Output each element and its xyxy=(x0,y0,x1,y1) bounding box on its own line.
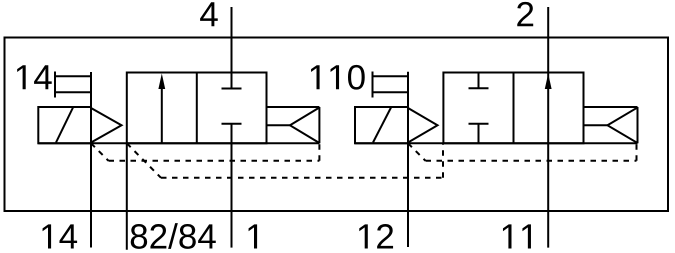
valve body V1 xyxy=(127,73,267,144)
port label 4 xyxy=(200,2,218,26)
port label 14 bottom xyxy=(43,224,78,248)
solenoid coil V1 xyxy=(38,107,91,143)
chamber divider V2 xyxy=(513,73,515,144)
port label 12 xyxy=(359,224,393,248)
port label 82/84 xyxy=(131,223,216,249)
flow arrow V2 xyxy=(545,74,552,90)
pilot port 14 symbol xyxy=(54,72,56,98)
closed port T top V2 xyxy=(478,73,480,89)
pilot actuator triangle V1 xyxy=(91,108,122,143)
closed port T bottom V2 xyxy=(469,123,489,125)
pilot actuator triangle V2 xyxy=(408,108,438,143)
air spring return V2 xyxy=(584,106,638,108)
pilot line 12 vertical xyxy=(407,72,409,247)
pilot port label 14 xyxy=(17,65,52,89)
baseline V1 xyxy=(38,142,319,144)
port label 1 xyxy=(249,224,258,248)
pilot line 14 vertical xyxy=(90,72,92,248)
closed port T top V1 xyxy=(222,88,242,90)
pilot feedback dashed V2 xyxy=(408,143,637,161)
port label 11 xyxy=(503,224,531,248)
port label 2 xyxy=(517,2,533,26)
port line 82/84 xyxy=(126,143,128,250)
solenoid coil V2 xyxy=(355,107,408,143)
port line 1 xyxy=(231,124,233,248)
chamber divider V1 xyxy=(196,73,198,144)
port line 2/11 xyxy=(547,7,549,248)
pilot port label 110 xyxy=(311,65,365,90)
closed port T bottom V1 xyxy=(222,123,242,125)
pilot port 110 symbol xyxy=(372,72,374,98)
flow arrow V1 xyxy=(161,89,163,143)
air spring return V1 xyxy=(267,106,320,108)
pilot feedback dashed V1 xyxy=(91,143,319,161)
enclosure border xyxy=(5,38,669,212)
valve body V2 xyxy=(443,73,583,144)
port line 4 xyxy=(231,7,233,89)
crossover dashed 82/84 xyxy=(127,143,443,178)
baseline V2 xyxy=(355,142,638,144)
